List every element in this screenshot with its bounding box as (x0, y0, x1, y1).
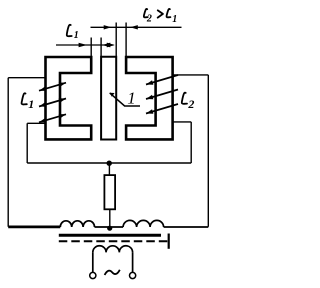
svg-text:1: 1 (172, 14, 177, 25)
svg-text:1: 1 (74, 30, 79, 41)
svg-text:1: 1 (28, 97, 34, 111)
svg-text:2: 2 (146, 14, 152, 25)
svg-text:2: 2 (187, 97, 194, 111)
svg-text:1: 1 (127, 89, 136, 108)
